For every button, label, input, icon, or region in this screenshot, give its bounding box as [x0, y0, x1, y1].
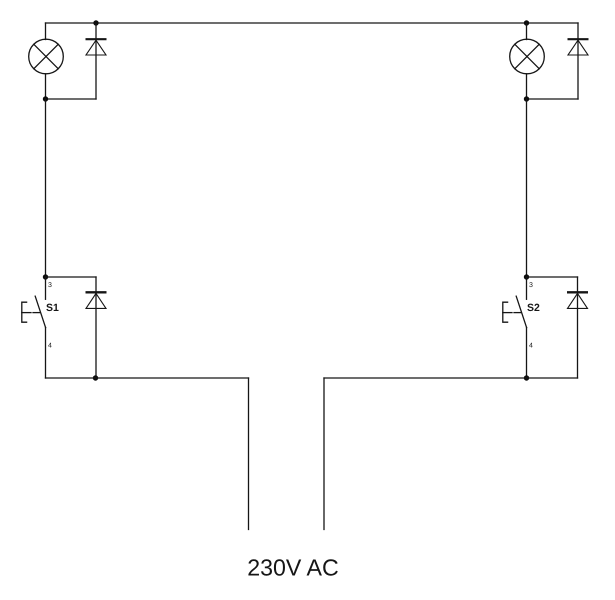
node junction S2 terminal 3 [524, 274, 529, 279]
wire supply drop left [248, 378, 250, 530]
diode V2 across S1 [86, 277, 107, 378]
node junction S2 bottom [524, 375, 529, 380]
lamp E2 [510, 39, 545, 74]
svg-text:3: 3 [529, 282, 533, 289]
node junction lamp E2 bottom [524, 96, 529, 101]
wire right vertical E2 to S2 [526, 99, 528, 277]
node junction lamp E1 bottom [43, 96, 48, 101]
wire lamp E1 bottom lead [45, 74, 47, 99]
svg-text:S1: S1 [46, 302, 59, 314]
wire bottom rail left [46, 377, 249, 379]
svg-text:4: 4 [529, 343, 533, 350]
wire top rail [46, 22, 579, 24]
wire S2 node to diode V4 [527, 276, 578, 278]
svg-text:S2: S2 [527, 302, 540, 314]
node junction diode V2 bottom [93, 375, 98, 380]
diode V1 [86, 23, 107, 99]
diode V3 [568, 39, 589, 99]
wire diode V1 bottom to lamp E1 bottom [46, 98, 97, 100]
diode V4 across S2 [567, 277, 588, 378]
node junction top rail / diode V1 [93, 20, 98, 25]
wire lamp E2 bottom lead [526, 74, 528, 99]
switch S2 [503, 277, 527, 378]
svg-text:4: 4 [48, 343, 52, 350]
wire top rail to diode V3 [577, 23, 579, 39]
svg-text:3: 3 [48, 282, 52, 289]
node junction S1 terminal 3 [43, 274, 48, 279]
switch S1 [22, 277, 46, 378]
wire diode V3 bottom to lamp E2 bottom [527, 98, 579, 100]
wire lamp E1 top lead [45, 23, 47, 40]
svg-text:230V AC: 230V AC [247, 555, 339, 581]
wire lamp E2 top lead [526, 23, 528, 40]
wire left vertical E1 to S1 [45, 99, 47, 277]
wire S1 node to diode V2 [46, 276, 97, 278]
lamp E1 [29, 39, 64, 74]
wire bottom rail right [324, 377, 578, 379]
wire supply drop right [323, 378, 325, 530]
node junction top rail / lamp E2 [524, 20, 529, 25]
